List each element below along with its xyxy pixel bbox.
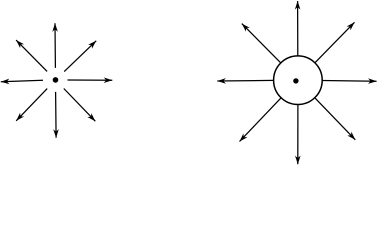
field arrow E (right) — [322, 80, 376, 83]
center charge dot (right) — [293, 78, 298, 83]
field arrow S (left) — [55, 92, 58, 138]
field arrow NW (left) — [16, 40, 47, 71]
sphere outline (right) — [274, 56, 323, 105]
field arrow W (right) — [217, 79, 273, 82]
field arrow E (left) — [68, 79, 113, 81]
field arrow SW (left) — [16, 89, 47, 121]
field arrow NE (right) — [315, 22, 355, 63]
field arrow SE (right) — [315, 98, 356, 140]
field arrow N (left) — [54, 23, 56, 68]
field arrow W (left) — [1, 80, 43, 82]
field arrow S (right) — [297, 105, 299, 165]
field arrow NW (right) — [242, 24, 281, 63]
field arrow N (right) — [297, 1, 299, 56]
point charge dot (left) — [53, 77, 59, 83]
field arrow NE (left) — [64, 41, 96, 72]
field arrow SE (left) — [64, 89, 96, 122]
field arrow SW (right) — [240, 98, 282, 142]
